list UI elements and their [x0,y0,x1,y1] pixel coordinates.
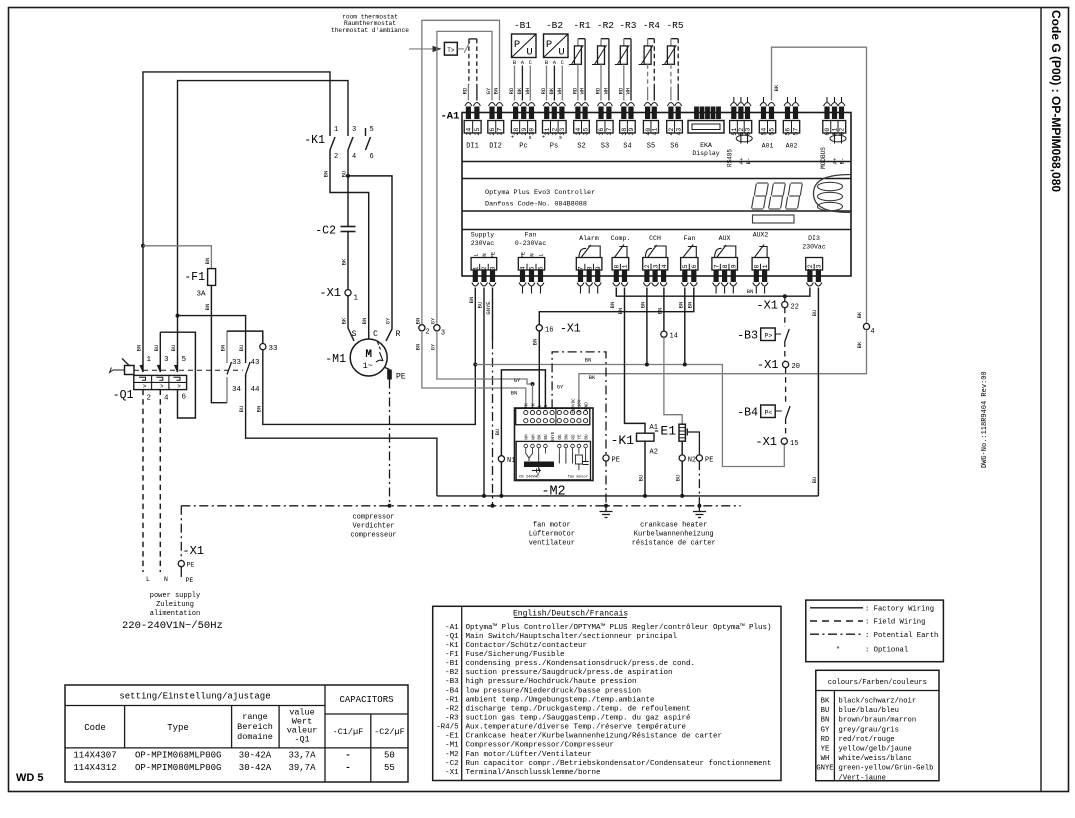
svg-text:2: 2 [481,266,488,270]
temperature sensor R5 [671,38,678,40]
svg-text:-F1: -F1 [184,271,205,284]
M1 PE connection [385,368,390,370]
svg-text:BN: BN [493,88,500,95]
terminal group RS485 (51,52,53) [730,103,752,136]
neutral jumper Q1 pole3 to pole6 [160,332,195,418]
svg-text:+: + [542,134,545,141]
svg-text:domaine: domaine [237,732,273,742]
svg-text:BN: BN [639,302,646,309]
wire CCH pin14 to E1 [663,288,665,332]
svg-text:M: M [365,349,372,361]
legend table English/Deutsch/Francais [433,606,781,780]
svg-text:S: S [352,330,357,339]
svg-text:54: 54 [761,128,768,136]
potential earth rail [181,505,740,507]
fan motor controller M2 [515,408,594,481]
svg-text:GNYE: GNYE [485,301,492,315]
temperature sensor R3 [624,38,631,40]
svg-text:-B2: -B2 [546,20,563,31]
svg-text:BK: BK [341,317,348,324]
svg-text:53: 53 [745,128,752,136]
svg-text:114X4307: 114X4307 [73,751,116,761]
svg-text:BU: BU [341,171,348,178]
svg-text:PE: PE [186,577,194,584]
wire DI3 pin23 to neutral rail (BU) [817,288,819,496]
svg-text:4: 4 [520,266,527,270]
svg-text:S5: S5 [647,143,655,151]
svg-text:1: 1 [473,266,480,270]
svg-text:DWG-No.:118R9404 Rev:00: DWG-No.:118R9404 Rev:00 [981,371,989,468]
svg-text:BK: BK [516,87,523,94]
svg-text:WH: WH [579,88,586,95]
svg-text:-X1: -X1 [182,544,204,558]
svg-text:U: U [526,47,532,59]
svg-text:BU: BU [638,475,645,482]
svg-text:Display: Display [692,150,719,157]
svg-text:33: 33 [269,345,279,353]
svg-text:compressor: compressor [352,514,394,522]
svg-text:fan motor: fan motor [533,522,571,530]
svg-text:green-yellow/Grün-Gelb: green-yellow/Grün-Gelb [839,765,934,773]
svg-text:-: - [345,763,350,773]
terminal X1-22 [784,296,786,301]
svg-text:WD 5: WD 5 [16,772,44,784]
svg-text:BU: BU [238,345,245,352]
svg-text:34: 34 [232,386,242,394]
svg-text:Zuleitung: Zuleitung [156,601,194,609]
terminal X1-15 [781,438,787,444]
svg-text:-C2: -C2 [445,760,459,768]
svg-text:GND: GND [584,402,589,410]
svg-text:S2: S2 [577,143,585,151]
high pressure switch B3 [784,308,786,327]
svg-text:2: 2 [334,153,338,161]
wire branch to M1 R (GY) [348,176,392,341]
pressure transmitter B2 [544,34,569,58]
terminal group S4 (38,39) [620,103,636,136]
EKA display connector [688,121,724,134]
terminal group DI2 (26,27) [488,103,504,136]
svg-text:-B4: -B4 [737,407,758,420]
wire Comp pin10 to DI3 pin22 (BN) [616,288,810,297]
svg-text:BU: BU [811,477,818,484]
svg-text:26: 26 [489,128,496,136]
svg-text:-R3: -R3 [445,715,459,723]
svg-text:CAPACITORS: CAPACITORS [339,695,393,705]
svg-text:>: > [143,383,147,390]
svg-text:0-10V: 0-10V [578,399,583,412]
svg-text:Fuse/Sicherung/Fusible: Fuse/Sicherung/Fusible [466,651,565,659]
svg-text:-X1: -X1 [755,435,777,449]
svg-text:-R1: -R1 [573,20,590,31]
svg-text:43: 43 [251,359,261,367]
svg-text:230Vac: 230Vac [471,240,495,247]
svg-text:P: P [514,39,520,51]
wire AO1 pin55 to X1-4 (BK) [772,47,867,323]
Q1 linkage (mech) [134,369,243,371]
wire X1-1 to M1 S (BK) [348,296,354,341]
svg-text:BU: BU [170,345,177,352]
svg-text:Verdichter: Verdichter [352,523,394,531]
svg-text:BK: BK [856,341,863,348]
svg-text:BN: BN [468,297,475,304]
output relay Alarm (7,8,9) [576,245,602,286]
svg-text:Code: Code [84,723,106,733]
wire Fan pin16 to X1-16 [539,288,694,325]
terminal X1-2 [419,325,425,331]
svg-text:BN: BN [415,344,422,351]
svg-text:37: 37 [606,128,613,136]
svg-text:N: N [543,404,549,407]
svg-text:-M2: -M2 [541,485,565,500]
wire X1-3 to DI2 pin 26 (GY) [437,31,492,324]
svg-text:RD: RD [571,87,578,94]
svg-text:-Q1: -Q1 [445,633,459,641]
wire M2 N to terminal N1 (BU) [501,370,545,496]
svg-text:39: 39 [628,128,635,136]
svg-text:/Vert-jaune: /Vert-jaune [839,774,886,782]
low pressure switch B4 [785,368,787,404]
svg-text:GY: GY [821,726,830,734]
contactor K1 poles [329,128,331,136]
field wires thermostat to DI1 [468,39,470,85]
svg-text:high pressure/Hochdruck/haute: high pressure/Hochdruck/haute pression [466,678,637,686]
svg-text:30-42A: 30-42A [239,763,272,773]
svg-text:A01: A01 [762,143,774,150]
svg-text:6: 6 [538,266,545,270]
terminal X1-33 [260,344,266,350]
svg-text:discharge temp./Druckgastemp./: discharge temp./Druckgastemp./temp. de r… [466,705,691,713]
svg-text:GNYE: GNYE [816,765,833,773]
svg-text:Comp.: Comp. [611,235,631,242]
svg-text:grey/grau/gris: grey/grau/gris [839,726,899,734]
svg-text:60: 60 [824,128,831,136]
svg-text:5: 5 [529,266,536,270]
svg-text:Optyma™ Plus Controller/OPTYMA: Optyma™ Plus Controller/OPTYMA™ PLUS Reg… [466,623,772,632]
svg-text:-X1: -X1 [560,323,581,336]
svg-text:N: N [164,576,168,583]
svg-text:red/rot/rouge: red/rot/rouge [839,736,895,744]
svg-text:N: N [529,253,536,256]
terminal X1-1 [345,290,351,296]
svg-text:39,7A: 39,7A [288,763,316,773]
wire X1-2 to M2 TK (BN) [422,331,526,409]
wires B2 to controller [546,66,548,101]
svg-text:-X1: -X1 [756,298,778,312]
svg-text:AUX2: AUX2 [753,232,769,239]
stubs below unused output pins [522,287,524,294]
svg-text:BN: BN [532,339,539,346]
output relay CCH (12,13,14) [643,245,668,286]
svg-text:35: 35 [582,128,589,136]
svg-text:OP-MPIM080MLP00G: OP-MPIM080MLP00G [135,763,221,773]
svg-text:L: L [537,404,543,407]
stubs above unused top pins [733,97,735,102]
wire K1 A2 to neutral rail (BU) [644,441,646,496]
svg-text:BN: BN [323,171,330,178]
svg-text:16: 16 [545,326,553,334]
EKA display connector pins [694,107,721,120]
terminal X1-3 [434,325,440,331]
svg-text:BN: BN [220,345,227,352]
terminal group AO1 (54,55) [759,103,775,136]
svg-text:>: > [177,383,181,390]
svg-text:GY: GY [385,317,392,324]
svg-text:Fan motor/Lüfter/Ventilateur: Fan motor/Lüfter/Ventilateur [466,751,592,759]
terminal N1 [498,456,504,462]
wire CCH pin12 from BN rail [646,288,648,365]
svg-text:PE: PE [396,373,406,382]
wiring legend box [806,600,944,662]
svg-text:6: 6 [182,394,187,402]
svg-text:-B3: -B3 [445,678,459,686]
aux contact 43-44 [245,360,247,363]
svg-text:-M2: -M2 [445,751,459,759]
svg-text:-X1: -X1 [445,769,459,777]
svg-text:BU: BU [238,406,245,413]
svg-text:-E1: -E1 [653,424,677,439]
svg-text:RD: RD [508,87,515,94]
terminal PE (E1) [696,455,702,461]
wire Q1 pole3 to aux contact 43 (N, BU) [159,332,161,355]
svg-text:8: 8 [586,266,593,270]
output relay AUX2 (20,21) [752,245,769,287]
svg-text:Pc: Pc [519,143,527,151]
svg-text:GY: GY [485,87,492,94]
svg-text:BN: BN [204,304,211,311]
svg-text:BK: BK [589,374,596,381]
svg-text:Optyma Plus Evo3 Controller: Optyma Plus Evo3 Controller [485,189,595,197]
svg-text:fan motor: fan motor [567,475,588,480]
svg-text:3: 3 [164,356,169,364]
field wiring L to power supply [142,390,144,572]
svg-text:WH: WH [525,434,530,440]
svg-text:ambient temp./Umgebungstemp./t: ambient temp./Umgebungstemp./temp.ambian… [466,696,655,704]
svg-text:BN: BN [747,288,754,295]
terminal group Pc (28,29,30) [511,103,535,136]
svg-text:-B4: -B4 [445,687,459,695]
svg-text:suction gas temp./Sauggastemp.: suction gas temp./Sauggastemp./temp. du … [466,715,691,723]
svg-text:24: 24 [466,128,473,136]
svg-text:-R4: -R4 [643,20,660,31]
svg-text:1: 1 [334,126,338,134]
svg-text:9: 9 [595,266,602,270]
svg-text:-B1: -B1 [445,660,459,668]
svg-text:-C1/µF: -C1/µF [333,727,364,737]
svg-text:3: 3 [441,330,445,338]
svg-text:Code G (P00) : OP-MPIM068,080: Code G (P00) : OP-MPIM068,080 [1049,10,1063,192]
input DI3 230Vac (22,23) [806,258,823,287]
svg-text:Compressor/Kompressor/Compress: Compressor/Kompressor/Compresseur [466,742,615,750]
temperature sensor R1 [578,38,585,40]
svg-text:PE: PE [490,251,497,258]
svg-text:1: 1 [354,295,359,303]
svg-text:: Optional: : Optional [865,647,908,655]
terminal X1-PE bottom left [180,506,182,561]
svg-text:T>: T> [447,47,455,54]
svg-text:L: L [146,576,150,583]
M2 PE earth [552,352,606,506]
svg-text:Bereich: Bereich [237,722,273,732]
svg-text:-C2/µF: -C2/µF [374,727,405,737]
svg-text:-Q1: -Q1 [294,735,309,745]
svg-text:ventilateur: ventilateur [529,540,575,548]
svg-text:Type: Type [167,723,189,733]
svg-text:DI2: DI2 [489,143,502,151]
svg-text:-R2: -R2 [597,20,614,31]
terminal group S2 (34,35) [574,103,590,136]
svg-text:+10VDC: +10VDC [571,398,576,414]
main switch Q1 [134,375,187,389]
field wiring N to power supply [159,390,161,572]
svg-text:RD: RD [821,736,830,744]
svg-text:-F1: -F1 [445,651,459,659]
svg-text:>: > [160,383,164,390]
output relay Comp. (10,11) [612,245,629,287]
svg-text:Alarm: Alarm [579,235,599,242]
wire Fan pin15 from BN rail [684,288,686,365]
setting table [65,685,408,782]
svg-text:OP-MPIM068MLP00G: OP-MPIM068MLP00G [135,751,221,761]
svg-text:Danfoss Code-No. 084B8088: Danfoss Code-No. 084B8088 [485,201,587,209]
svg-text:*: * [836,647,840,655]
svg-text:B-: B- [839,158,846,165]
svg-text:-B2: -B2 [445,669,459,677]
svg-text:+: + [511,134,514,141]
svg-text:27: 27 [497,128,504,136]
svg-text:CCH: CCH [649,235,661,242]
svg-text:WH: WH [625,88,632,95]
svg-text:BN: BN [656,308,663,315]
svg-text:P<: P< [765,410,773,417]
svg-text:PE: PE [187,562,195,569]
svg-text:WH: WH [556,88,563,95]
svg-text:BK: BK [856,311,863,318]
svg-text:BU: BU [584,434,589,440]
svg-text:7: 7 [578,266,585,270]
svg-text:Run capacitor compr./Betriebsk: Run capacitor compr./Betriebskondensator… [466,760,772,768]
svg-text:25: 25 [474,128,481,136]
wire K1 pole2 to M1 C (BN) [330,155,369,339]
svg-text:BU: BU [494,429,501,436]
wire tap to F1 [141,244,145,248]
svg-text:s: s [528,134,531,141]
svg-text:BK: BK [821,698,830,706]
svg-text:32: 32 [552,128,559,136]
run capacitor C2 [341,226,356,228]
svg-text:BU: BU [675,475,682,482]
svg-text:BN: BN [686,302,693,309]
svg-text:-: - [345,751,350,761]
svg-text:power supply: power supply [150,592,200,600]
svg-text:PE: PE [520,251,527,258]
wire aux44 to neutral rail (BU) [246,375,437,496]
svg-text:33,7A: 33,7A [288,751,316,761]
svg-text:black/schwarz/noir: black/schwarz/noir [839,698,917,706]
svg-text:P>: P> [765,333,773,340]
svg-text:low pressure/Niederdruck/basse: low pressure/Niederdruck/basse pression [466,687,642,695]
fuse F1 3A [208,269,216,286]
output relay Fan (15,16) [681,245,698,287]
wire K1 pole4 down (BU) [347,155,349,227]
svg-text:-K1: -K1 [445,642,459,650]
svg-text:22: 22 [791,303,799,311]
svg-text:N2: N2 [688,457,696,465]
svg-text:YE: YE [578,434,583,440]
ground symbol E1 [693,512,706,518]
svg-text:WH: WH [821,755,830,763]
svg-text:220-240V1N~/50Hz: 220-240V1N~/50Hz [122,620,223,632]
svg-text:WH: WH [524,88,531,95]
svg-text:BN: BN [415,318,422,325]
svg-text:-A1: -A1 [445,624,459,632]
svg-text:RD: RD [617,87,624,94]
pressure transmitter B1 [512,34,537,58]
svg-text:L: L [472,253,479,256]
wire Q1 pole1 to K1 pole1 (BN) [143,72,330,356]
compressor motor M1 [350,339,387,376]
svg-text:BN: BN [565,434,570,440]
svg-text:BU: BU [153,345,160,352]
temperature sensor R2 [601,38,609,40]
svg-text:Main Switch/Hauptschalter/sect: Main Switch/Hauptschalter/sectionneur pr… [466,633,678,641]
svg-text:-M1: -M1 [445,742,459,750]
svg-text:L: L [538,253,545,256]
svg-text:-B1: -B1 [514,20,531,31]
svg-text:BN: BN [677,302,684,309]
svg-text:BN: BN [821,717,830,725]
svg-text:55: 55 [769,128,776,136]
wire X1-3 to M2 TK (GY) [437,331,533,384]
svg-text:-C2: -C2 [315,225,336,238]
svg-text:20: 20 [792,363,800,371]
svg-text:3A: 3A [196,291,206,299]
output relay AUX (17,18,19) [712,245,738,286]
svg-text:-X1: -X1 [319,286,341,300]
svg-text:BU: BU [821,707,830,715]
svg-text:Aux.temperature/diverse Temp./: Aux.temperature/diverse Temp./réserve te… [466,724,687,732]
bracket aux33 to X1-33 [227,331,263,343]
svg-text:WH: WH [531,434,536,440]
svg-text:: Field Wiring: : Field Wiring [865,619,925,627]
svg-text:GY: GY [514,377,521,384]
svg-text:-R3: -R3 [619,20,636,31]
svg-text:RD: RD [595,87,602,94]
svg-text:6: 6 [370,153,374,161]
svg-text:-K1: -K1 [304,134,325,147]
svg-text:0-230Vac: 0-230Vac [515,240,546,247]
svg-text:114X4312: 114X4312 [73,763,116,773]
svg-text:: Factory Wiring: : Factory Wiring [865,606,934,614]
svg-text:BN: BN [511,390,518,397]
terminal group MODBUS (60,61,62) [823,103,846,136]
svg-text:EKA: EKA [700,142,712,149]
wire X1-4 to M2 0-10V input [579,330,867,409]
svg-text:WH: WH [602,88,609,95]
svg-text:Terminal/Anschlussklemme/borne: Terminal/Anschlussklemme/borne [466,769,601,777]
BN rail from supply L [473,363,477,367]
svg-text:PE: PE [612,457,620,465]
svg-text:BK: BK [538,434,543,440]
wire Q1 pole5 to K1 pole3 (BU) [178,81,349,356]
svg-text:CN 240VAC: CN 240VAC [519,476,540,480]
svg-text:BK: BK [341,258,348,265]
svg-text:55: 55 [384,763,395,773]
thermostat contact T> [444,42,457,55]
svg-text:C: C [373,330,378,339]
aux contact 33-34 [226,331,228,363]
svg-text:-K1: -K1 [611,433,635,448]
